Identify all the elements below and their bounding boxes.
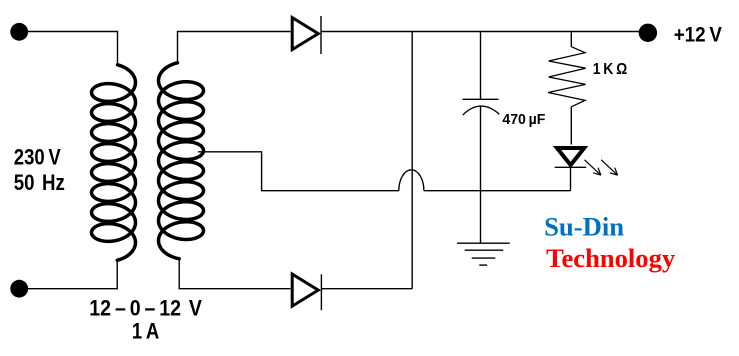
- LED emission arrows: [585, 160, 618, 175]
- wire: secondary top lead to diode D1 anode: [178, 32, 291, 63]
- svg-text:1 A: 1 A: [132, 319, 159, 344]
- wire: top rail to resistor R1: [570, 32, 572, 47]
- wire: top-left terminal to primary top lead: [28, 32, 118, 65]
- svg-text:Su-Din: Su-Din: [544, 212, 625, 241]
- LED D3: [555, 148, 587, 191]
- terminal: +12V output: [639, 24, 657, 42]
- ground: [457, 243, 510, 265]
- transformer primary winding: [92, 65, 136, 260]
- svg-text:1 K Ω: 1 K Ω: [593, 61, 628, 78]
- svg-text:+12 V: +12 V: [674, 22, 723, 46]
- transformer secondary winding: [159, 63, 204, 259]
- svg-text:470 µF: 470 µF: [502, 111, 545, 128]
- wire: ground rail from hop to LED cathode: [424, 190, 571, 192]
- capacitor C1: [463, 99, 500, 115]
- diode D2: [292, 274, 321, 310]
- resistor R1: [548, 47, 586, 107]
- svg-text:12 – 0 – 12 V: 12 – 0 – 12 V: [89, 295, 202, 320]
- wire: capacitor bottom through ground rail to ground symbol: [480, 106, 482, 243]
- wire: resistor to LED anode: [570, 107, 572, 145]
- svg-text:230 V: 230 V: [14, 144, 61, 169]
- svg-text:50 Hz: 50 Hz: [14, 170, 65, 195]
- wire: top rail to capacitor C1: [480, 32, 482, 100]
- wire: center tap to ground rail: [198, 152, 399, 191]
- wire: bottom-left terminal to primary bottom lead: [28, 261, 117, 289]
- diode D1: [292, 16, 321, 54]
- wire: riser joining D2 output to top rail: [411, 32, 413, 289]
- wire: D1 cathode along top rail to +12V terminal: [321, 31, 639, 33]
- wire: hop over riser: [399, 170, 424, 191]
- wire: secondary bottom lead to diode D2 anode: [179, 259, 290, 289]
- wire: D2 cathode to riser: [321, 288, 412, 290]
- terminal: AC input top: [10, 23, 28, 41]
- svg-text:Technology: Technology: [546, 244, 675, 273]
- terminal: AC input bottom: [10, 280, 28, 298]
